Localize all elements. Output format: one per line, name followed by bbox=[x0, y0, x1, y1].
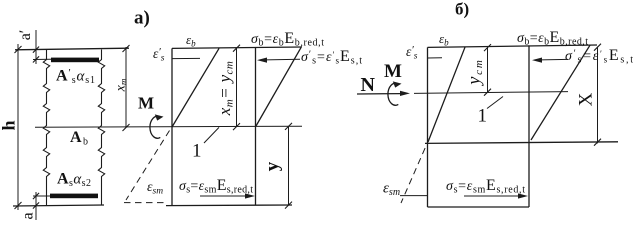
svg-text:y: y bbox=[262, 161, 283, 171]
svg-text:εsm: εsm bbox=[383, 181, 400, 199]
svg-text:Ab: Ab bbox=[70, 129, 88, 148]
svg-text:xm: xm bbox=[114, 78, 129, 92]
svg-text:X: X bbox=[576, 92, 597, 106]
svg-text:N: N bbox=[361, 74, 376, 96]
svg-text:σs=εsmEs,red,t: σs=εsmEs,red,t bbox=[446, 177, 525, 196]
svg-text:1: 1 bbox=[192, 141, 202, 162]
svg-text:εb: εb bbox=[439, 31, 449, 47]
svg-text:σ′s=ε′sEs,t: σ′s=ε′sEs,t bbox=[565, 47, 633, 66]
svg-text:б): б) bbox=[455, 0, 469, 19]
svg-text:1: 1 bbox=[478, 106, 488, 127]
svg-text:a: a bbox=[20, 212, 37, 219]
svg-text:A′sαs1: A′sαs1 bbox=[56, 67, 95, 86]
svg-text:σ′s=ε′sEs,t: σ′s=ε′sEs,t bbox=[301, 48, 362, 67]
svg-text:xm= ycm: xm= ycm bbox=[215, 61, 236, 116]
svg-text:ycm: ycm bbox=[464, 58, 486, 86]
svg-text:Asαs2: Asαs2 bbox=[57, 171, 91, 190]
svg-text:h: h bbox=[0, 120, 19, 130]
svg-text:σb=εbEb,red,t: σb=εbEb,red,t bbox=[251, 30, 324, 49]
svg-text:M: M bbox=[384, 61, 402, 82]
svg-text:M: M bbox=[138, 94, 154, 113]
svg-text:εb: εb bbox=[186, 32, 196, 48]
svg-text:ε′s: ε′s bbox=[153, 46, 165, 64]
svg-text:а): а) bbox=[134, 8, 150, 29]
svg-text:εsm: εsm bbox=[147, 180, 163, 197]
svg-text:ε′s: ε′s bbox=[406, 44, 418, 62]
svg-text:σb=εbEb,red,t: σb=εbEb,red,t bbox=[517, 29, 588, 48]
svg-text:σs=εsmEs,red,t: σs=εsmEs,red,t bbox=[179, 177, 253, 196]
svg-text:a′: a′ bbox=[17, 30, 34, 41]
